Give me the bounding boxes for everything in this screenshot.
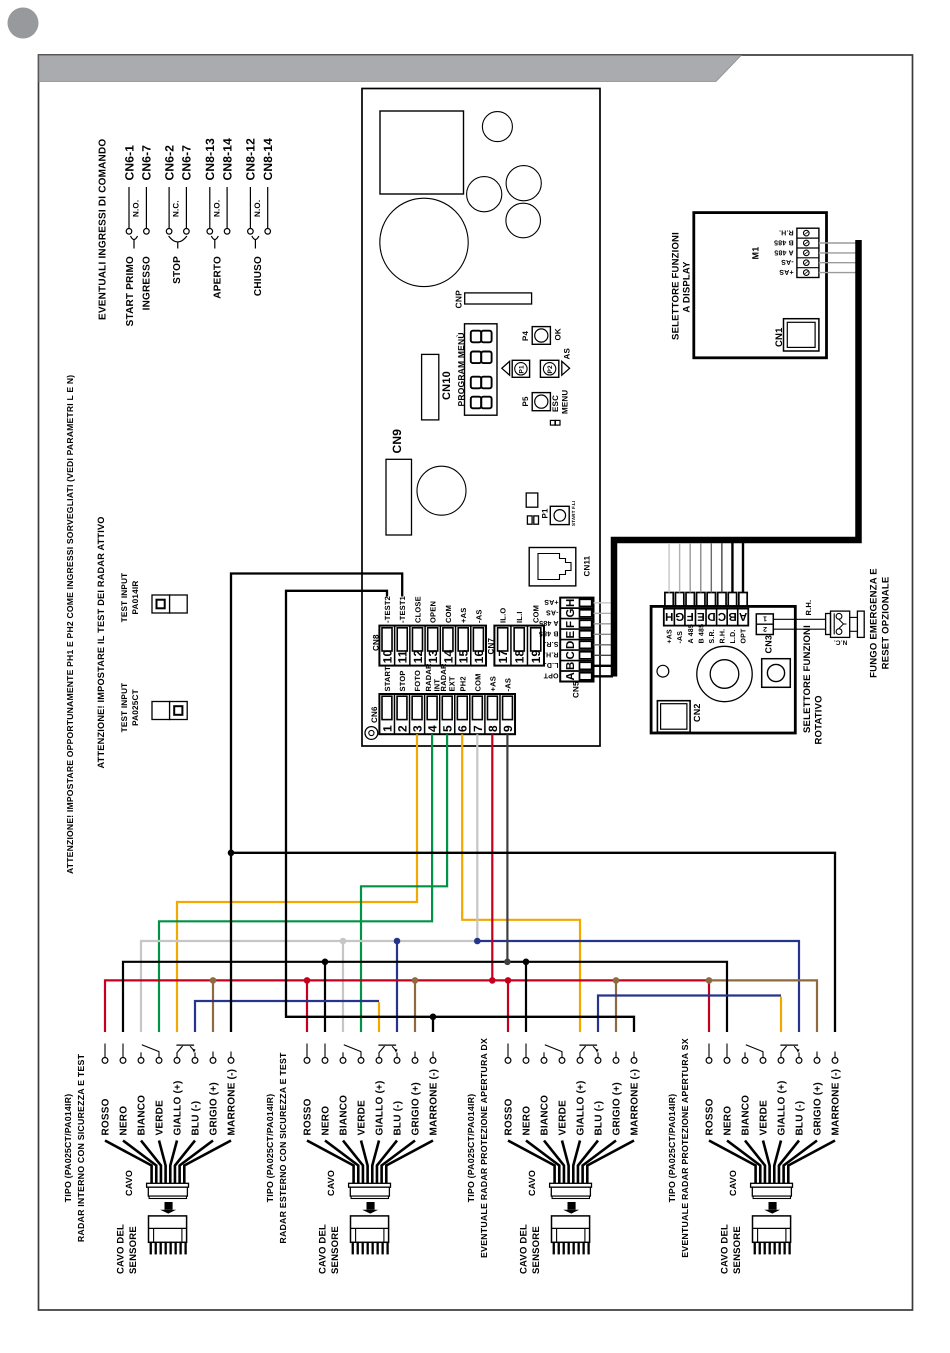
svg-text:P1: P1 bbox=[519, 365, 526, 374]
svg-text:CN8-13: CN8-13 bbox=[203, 138, 217, 181]
relay K2 bbox=[506, 203, 541, 238]
wire radar2 NERO drop bbox=[324, 962, 326, 1032]
wire radar3 ROSSO drop (red) bbox=[507, 980, 509, 1032]
radar group 2 mating arrow bbox=[362, 1202, 378, 1214]
terminal block M1 bbox=[751, 228, 819, 277]
control board outline bbox=[362, 89, 600, 747]
svg-text:E: E bbox=[565, 631, 577, 639]
label SELETTORE FUNZIONI ROTATIVO bbox=[802, 625, 824, 744]
svg-text:CN8-12: CN8-12 bbox=[244, 138, 258, 181]
svg-text:12: 12 bbox=[411, 650, 425, 664]
radar sensor group 2 contacts bbox=[304, 1044, 436, 1064]
svg-text:17: 17 bbox=[496, 650, 510, 664]
svg-text:SENSORE: SENSORE bbox=[128, 1226, 139, 1274]
svg-text:IL.O: IL.O bbox=[499, 608, 508, 623]
svg-text:R.H.: R.H. bbox=[804, 600, 813, 616]
svg-text:CAVO DEL: CAVO DEL bbox=[318, 1224, 329, 1274]
svg-text:ATTENZIONE! IMPOSTARE OPPORTUN: ATTENZIONE! IMPOSTARE OPPORTUNAMENTE PH1… bbox=[65, 375, 75, 874]
svg-text:SENSORE: SENSORE bbox=[531, 1226, 542, 1274]
svg-text:+AS: +AS bbox=[779, 268, 794, 275]
svg-text:CAVO: CAVO bbox=[527, 1170, 537, 1196]
svg-text:NERO: NERO bbox=[522, 1106, 533, 1136]
radar group 1 cable fan bbox=[105, 1141, 231, 1184]
warning note radar test bbox=[96, 516, 106, 768]
svg-text:CAVO: CAVO bbox=[124, 1170, 134, 1196]
wire radar1 BLU to radar2 GIALLO (blue segment) bbox=[195, 1001, 379, 1032]
svg-text:MARRONE (-): MARRONE (-) bbox=[630, 1069, 641, 1136]
svg-text:OPT: OPT bbox=[741, 628, 748, 644]
radar group 2 cable connector CAVO bbox=[326, 1170, 391, 1199]
svg-text:ATTENZIONE! IMPOSTARE IL TEST: ATTENZIONE! IMPOSTARE IL TEST DEI RADAR … bbox=[96, 516, 106, 768]
svg-text:ROSSO: ROSSO bbox=[303, 1098, 314, 1135]
test input selector PA025CT bbox=[152, 702, 187, 720]
button P4 OK bbox=[521, 327, 563, 345]
smd pair bbox=[527, 516, 538, 524]
svg-text:+AS: +AS bbox=[544, 598, 559, 605]
svg-text:TEST INPUT: TEST INPUT bbox=[120, 573, 129, 623]
header bar bbox=[39, 56, 741, 82]
svg-text:-AS: -AS bbox=[677, 631, 684, 644]
svg-text:MARRONE (-): MARRONE (-) bbox=[227, 1069, 238, 1136]
svg-text:+AS: +AS bbox=[667, 629, 674, 644]
svg-text:M1: M1 bbox=[751, 247, 761, 260]
wires R.H. to mushroom button bbox=[773, 600, 825, 630]
svg-text:STOP: STOP bbox=[398, 670, 407, 691]
svg-text:OK: OK bbox=[554, 328, 563, 340]
svg-text:R.H.: R.H. bbox=[779, 229, 794, 236]
svg-text:CAVO DEL: CAVO DEL bbox=[116, 1224, 127, 1274]
svg-text:RESET OPZIONALE: RESET OPZIONALE bbox=[880, 577, 891, 670]
wire RADAR EXT pin5 to radar2 VERDE (green) bbox=[361, 734, 447, 1032]
radar group 3 wire labels bbox=[504, 1069, 641, 1136]
page marker circle bbox=[8, 8, 39, 39]
box SELETTORE FUNZIONI ROTATIVO bbox=[651, 606, 795, 733]
svg-text:A 485: A 485 bbox=[774, 248, 793, 255]
svg-text:CN10: CN10 bbox=[441, 371, 453, 400]
warning note PH1/PH2 bbox=[65, 375, 75, 874]
svg-text:3: 3 bbox=[410, 725, 424, 732]
svg-text:SELETTORE FUNZIONI: SELETTORE FUNZIONI bbox=[802, 625, 813, 733]
svg-text:CN8-14: CN8-14 bbox=[261, 138, 275, 181]
mushroom emergency button N.C. bbox=[826, 611, 865, 645]
svg-text:EVENTUALE RADAR PROTEZIONE APE: EVENTUALE RADAR PROTEZIONE APERTURA SX bbox=[680, 1038, 690, 1258]
svg-text:CAVO: CAVO bbox=[326, 1170, 336, 1196]
radar group 4 sensor plug CAVO DEL SENSORE bbox=[720, 1216, 791, 1274]
svg-text:1: 1 bbox=[380, 725, 394, 732]
svg-text:ESC: ESC bbox=[551, 395, 560, 412]
wire radar1 GRIGIO drop (brown) bbox=[212, 980, 214, 1032]
radar group 3 description bbox=[466, 1038, 489, 1258]
wire radar3 NERO drop bbox=[525, 962, 527, 1032]
svg-text:L.D.: L.D. bbox=[544, 661, 558, 668]
svg-text:2: 2 bbox=[395, 725, 409, 732]
svg-text:CN6-1: CN6-1 bbox=[122, 145, 136, 181]
command input switch CHIUSO (CN8-12/CN8-14) bbox=[244, 138, 275, 296]
svg-text:-TEST1: -TEST1 bbox=[398, 596, 407, 623]
svg-text:GRIGIO (+): GRIGIO (+) bbox=[813, 1082, 824, 1135]
svg-text:EXT: EXT bbox=[447, 676, 456, 691]
connector CNP bbox=[454, 290, 532, 309]
arrow right AS bbox=[562, 348, 572, 376]
svg-text:-AS: -AS bbox=[781, 258, 794, 265]
svg-text:COM: COM bbox=[444, 605, 453, 623]
wire radar4 GIALLO drop (orange) bbox=[780, 997, 782, 1032]
svg-text:H: H bbox=[665, 610, 674, 622]
svg-text:A: A bbox=[739, 610, 748, 622]
test input PA025CT label bbox=[120, 683, 140, 733]
radar group 1 wire labels bbox=[101, 1069, 238, 1136]
wire COM bus blue segment to radar4 BLU bbox=[477, 941, 799, 1032]
button P5 ESC MENU bbox=[521, 390, 570, 414]
svg-text:BIANCO: BIANCO bbox=[540, 1095, 551, 1136]
svg-text:L.D.: L.D. bbox=[730, 629, 737, 643]
svg-text:BIANCO: BIANCO bbox=[741, 1095, 752, 1136]
CN7 pin labels bbox=[499, 605, 541, 623]
connector CN7 terminal block pins 17-19 bbox=[486, 626, 544, 666]
svg-text:11: 11 bbox=[396, 650, 410, 663]
svg-text:TIPO (PA025CT/PA014IR): TIPO (PA025CT/PA014IR) bbox=[265, 1094, 275, 1203]
svg-text:MENU: MENU bbox=[561, 390, 570, 414]
svg-text:2: 2 bbox=[763, 625, 767, 632]
svg-text:START: START bbox=[383, 666, 392, 692]
wire radar2 BIANCO drop (gray) bbox=[342, 941, 344, 1032]
svg-text:19: 19 bbox=[529, 650, 543, 664]
svg-text:N.O.: N.O. bbox=[253, 200, 262, 217]
svg-text:16: 16 bbox=[472, 650, 486, 664]
CN5 wires to cable bundle bbox=[594, 603, 614, 676]
relay K3 bbox=[417, 466, 466, 515]
svg-text:PA014IR: PA014IR bbox=[131, 580, 140, 614]
rotativo letter cells bbox=[664, 609, 748, 626]
svg-text:CN3: CN3 bbox=[764, 635, 774, 654]
wire radar3 BLU to radar4 GIALLO (blue segment) bbox=[598, 996, 781, 1033]
svg-text:BLU (-): BLU (-) bbox=[393, 1101, 404, 1136]
led hole bbox=[657, 665, 669, 677]
svg-text:CN9: CN9 bbox=[390, 429, 404, 454]
wire -TEST2 pin10 to radar2/radar3 MARRONE bbox=[286, 591, 634, 1032]
radar group 1 sensor plug CAVO DEL SENSORE bbox=[116, 1216, 187, 1274]
svg-text:CN6: CN6 bbox=[370, 706, 379, 723]
svg-text:G: G bbox=[565, 608, 577, 617]
svg-text:18: 18 bbox=[513, 650, 527, 664]
svg-text:CAVO DEL: CAVO DEL bbox=[519, 1224, 530, 1274]
svg-text:8: 8 bbox=[486, 725, 500, 732]
svg-text:IL.I: IL.I bbox=[515, 611, 524, 623]
svg-text:10: 10 bbox=[380, 650, 394, 664]
radar group 1 cable connector CAVO bbox=[124, 1170, 189, 1199]
rotativo terminal labels bbox=[667, 624, 748, 644]
svg-text:A DISPLAY: A DISPLAY bbox=[681, 261, 692, 313]
radar group 2 wire labels bbox=[303, 1069, 440, 1136]
svg-text:FUNGO EMERGENZA E: FUNGO EMERGENZA E bbox=[869, 568, 880, 678]
svg-text:B: B bbox=[728, 610, 737, 622]
svg-text:ROSSO: ROSSO bbox=[504, 1098, 515, 1135]
svg-text:-AS: -AS bbox=[503, 678, 512, 692]
svg-text:PH2: PH2 bbox=[458, 676, 467, 691]
svg-text:TEST INPUT: TEST INPUT bbox=[120, 683, 129, 733]
wire COM pin7 drop (gray) bbox=[476, 734, 478, 941]
radar group 4 mating arrow bbox=[764, 1202, 780, 1214]
svg-text:C: C bbox=[718, 610, 727, 622]
svg-text:GIALLO (+): GIALLO (+) bbox=[173, 1080, 184, 1135]
svg-text:AS: AS bbox=[563, 348, 572, 360]
svg-text:SELETTORE FUNZIONI: SELETTORE FUNZIONI bbox=[670, 232, 681, 340]
radar group 2 sensor plug CAVO DEL SENSORE bbox=[318, 1216, 389, 1274]
label FUNGO EMERGENZA E RESET OPZIONALE bbox=[869, 568, 892, 678]
svg-text:R.H.: R.H. bbox=[719, 629, 726, 644]
svg-text:CN2: CN2 bbox=[692, 703, 702, 722]
svg-text:OPEN: OPEN bbox=[429, 601, 438, 623]
label SELETTORE FUNZIONI A DISPLAY bbox=[670, 232, 692, 340]
svg-text:NERO: NERO bbox=[119, 1106, 130, 1136]
box SELETTORE FUNZIONI A DISPLAY bbox=[694, 213, 827, 358]
junction dots bbox=[210, 850, 713, 1021]
svg-text:INGRESSO: INGRESSO bbox=[142, 256, 153, 310]
wire -AS pin9 drop (dark gray) bbox=[506, 734, 508, 962]
wire -TEST1 pin11 to radar1 MARRONE and radar4 MARRONE bbox=[231, 574, 835, 1033]
radar group 4 description bbox=[667, 1038, 690, 1258]
svg-text:-AS: -AS bbox=[474, 609, 483, 623]
radar group 2 description bbox=[265, 1052, 288, 1244]
label PROGRAM MENU bbox=[456, 332, 466, 406]
connector CN2 bbox=[657, 701, 702, 733]
svg-text:VERDE: VERDE bbox=[155, 1100, 166, 1136]
svg-text:MARRONE (-): MARRONE (-) bbox=[831, 1069, 842, 1136]
radar sensor group 1 contacts bbox=[102, 1044, 234, 1064]
svg-text:EVENTUALI INGRESSI DI COMANDO: EVENTUALI INGRESSI DI COMANDO bbox=[98, 139, 109, 320]
radar group 2 cable fan bbox=[307, 1141, 433, 1184]
radar group 3 cable connector CAVO bbox=[527, 1170, 592, 1199]
test input PA014IR label bbox=[120, 573, 140, 623]
svg-text:ROSSO: ROSSO bbox=[101, 1098, 112, 1135]
svg-text:NERO: NERO bbox=[723, 1106, 734, 1136]
svg-text:TIPO (PA025CT/PA014IR): TIPO (PA025CT/PA014IR) bbox=[63, 1094, 73, 1203]
svg-text:BLU (-): BLU (-) bbox=[594, 1101, 605, 1136]
radar group 4 cable fan bbox=[709, 1141, 835, 1184]
svg-text:15: 15 bbox=[457, 650, 471, 664]
svg-text:CN6-7: CN6-7 bbox=[140, 145, 154, 181]
capacitor C2 bbox=[467, 177, 502, 212]
svg-text:VERDE: VERDE bbox=[558, 1100, 569, 1136]
wire FOTO pin3 to radar1 GIALLO (orange) bbox=[177, 734, 417, 1032]
command input switch START PRIMO (CN6-1/CN6-7) bbox=[122, 145, 153, 327]
svg-text:E: E bbox=[697, 610, 705, 622]
svg-text:TIPO (PA025CT/PA014IR): TIPO (PA025CT/PA014IR) bbox=[466, 1094, 476, 1203]
svg-text:N.O.: N.O. bbox=[132, 200, 141, 217]
svg-text:14: 14 bbox=[441, 650, 455, 664]
connector CN1 bbox=[774, 319, 819, 351]
connector CN9 bbox=[386, 429, 412, 535]
wire radar4 ROSSO drop (red) bbox=[708, 980, 710, 1032]
svg-text:F: F bbox=[687, 610, 694, 622]
svg-text:GRIGIO (+): GRIGIO (+) bbox=[612, 1082, 623, 1135]
svg-text:NERO: NERO bbox=[321, 1106, 332, 1136]
button P2 bbox=[540, 360, 558, 377]
svg-text:SENSORE: SENSORE bbox=[330, 1226, 341, 1274]
radar group 4 wire labels bbox=[705, 1069, 842, 1136]
svg-text:S.R.: S.R. bbox=[544, 640, 558, 647]
svg-text:CN11: CN11 bbox=[583, 555, 592, 576]
arrow left bbox=[502, 361, 510, 375]
radar group 3 sensor plug CAVO DEL SENSORE bbox=[519, 1216, 590, 1274]
wire red bus bbox=[105, 980, 709, 1032]
svg-text:6: 6 bbox=[456, 725, 470, 732]
svg-text:R.H.: R.H. bbox=[544, 651, 559, 658]
svg-text:PA025CT: PA025CT bbox=[131, 689, 140, 726]
svg-text:CLOSE: CLOSE bbox=[413, 596, 422, 623]
svg-text:STOP: STOP bbox=[172, 256, 183, 284]
svg-text:TIPO (PA025CT/PA014IR): TIPO (PA025CT/PA014IR) bbox=[667, 1094, 677, 1203]
svg-text:FOTO: FOTO bbox=[413, 670, 422, 692]
rotativo terminal strip bbox=[665, 593, 747, 606]
svg-text:H: H bbox=[565, 599, 577, 608]
svg-text:D: D bbox=[565, 640, 577, 649]
svg-text:N.C.: N.C. bbox=[834, 639, 848, 646]
svg-text:+AS: +AS bbox=[488, 676, 497, 691]
connector CN3 socket bbox=[762, 659, 791, 688]
radar sensor group 4 contacts bbox=[706, 1044, 838, 1064]
svg-text:4: 4 bbox=[426, 725, 440, 732]
svg-text:P1: P1 bbox=[541, 508, 550, 519]
relay K1 bbox=[506, 166, 541, 201]
wire radar2 ROSSO drop (red) bbox=[306, 980, 308, 1032]
capacitor C1 bbox=[482, 112, 512, 142]
svg-text:RADAR INTERNO CON SICUREZZA E: RADAR INTERNO CON SICUREZZA E TEST bbox=[76, 1053, 86, 1242]
connector CN3 terminals 1-2 bbox=[756, 614, 773, 654]
CN6 label and mounting screw bbox=[365, 706, 379, 739]
svg-text:7: 7 bbox=[471, 725, 485, 732]
svg-text:N.O.: N.O. bbox=[212, 200, 221, 217]
command input switch APERTO (CN8-13/CN8-14) bbox=[203, 138, 234, 299]
svg-text:CN7: CN7 bbox=[486, 638, 495, 655]
wire RADAR INT pin4 to radar1 VERDE (green) bbox=[159, 734, 432, 1032]
svg-text:B 485: B 485 bbox=[774, 238, 794, 245]
svg-text:ROTATIVO: ROTATIVO bbox=[813, 695, 824, 744]
wire PH2 pin6 to radar3 GIALLO (orange) bbox=[462, 734, 580, 1032]
svg-text:S.R.: S.R. bbox=[709, 629, 716, 643]
svg-text:P5: P5 bbox=[521, 396, 530, 407]
svg-text:CHIUSO: CHIUSO bbox=[253, 256, 264, 296]
svg-text:GIALLO (+): GIALLO (+) bbox=[777, 1080, 788, 1135]
svg-text:ROSSO: ROSSO bbox=[705, 1098, 716, 1135]
svg-text:-TEST2: -TEST2 bbox=[383, 596, 392, 623]
wire COM bus gray segment bbox=[141, 941, 477, 1032]
svg-text:CN5: CN5 bbox=[572, 681, 581, 698]
svg-text:P4: P4 bbox=[521, 330, 530, 341]
svg-text:CN1: CN1 bbox=[774, 327, 785, 347]
transformer block bbox=[380, 111, 464, 194]
wire radar3 GRIGIO drop (brown) bbox=[615, 980, 617, 1032]
radar group 1 mating arrow bbox=[160, 1202, 176, 1214]
component near P1 bbox=[526, 493, 538, 507]
toroid transformer bbox=[380, 198, 468, 286]
svg-text:C: C bbox=[565, 651, 577, 660]
command input switch STOP (CN6-2/CN6-7) bbox=[162, 145, 193, 284]
svg-text:BIANCO: BIANCO bbox=[137, 1095, 148, 1136]
svg-text:SENSORE: SENSORE bbox=[732, 1226, 743, 1274]
svg-text:GRIGIO (+): GRIGIO (+) bbox=[411, 1082, 422, 1135]
M1 wires to bundle bbox=[819, 243, 856, 273]
radar sensor group 3 contacts bbox=[505, 1044, 637, 1064]
connector CN5 block rows A-H bbox=[560, 598, 593, 698]
cable bundle (thick) bbox=[614, 240, 859, 677]
svg-text:CNP: CNP bbox=[454, 290, 464, 309]
CN5 row labels (rotated) bbox=[539, 598, 559, 678]
wire radar2 BLU drop (blue) bbox=[396, 941, 398, 1032]
M1 terminal labels (rotated 180) bbox=[774, 229, 794, 276]
wire +AS pin8 drop (red) bbox=[491, 734, 493, 980]
svg-text:VERDE: VERDE bbox=[357, 1100, 368, 1136]
connector CN6 terminal block pins 1-9 bbox=[379, 694, 515, 734]
svg-text:APERTO: APERTO bbox=[212, 256, 223, 299]
svg-text:COM: COM bbox=[473, 673, 482, 691]
wire brown bus segment to radar4 GRIGIO bbox=[709, 980, 817, 1032]
svg-text:A 485: A 485 bbox=[539, 619, 558, 626]
rotary selector knob bbox=[697, 646, 752, 701]
svg-text:GIALLO (+): GIALLO (+) bbox=[576, 1080, 587, 1135]
svg-text:9: 9 bbox=[501, 725, 515, 732]
display CN10 connector bbox=[422, 354, 453, 420]
svg-text:CN8: CN8 bbox=[371, 634, 380, 651]
test input selector PA014IR bbox=[152, 595, 187, 613]
svg-text:CN8-14: CN8-14 bbox=[220, 138, 234, 181]
svg-text:OPT: OPT bbox=[543, 672, 559, 679]
svg-text:13: 13 bbox=[426, 650, 440, 664]
wire radar2 GIALLO drop (orange) bbox=[378, 1002, 380, 1032]
svg-text:MARRONE (-): MARRONE (-) bbox=[429, 1069, 440, 1136]
connector CN11 (RJ jack) bbox=[529, 548, 591, 586]
svg-text:A: A bbox=[565, 672, 577, 681]
svg-text:RADAR ESTERNO CON SICUREZZA E: RADAR ESTERNO CON SICUREZZA E TEST bbox=[278, 1052, 288, 1244]
CN6 pin labels bbox=[383, 663, 513, 691]
svg-text:BLU (-): BLU (-) bbox=[191, 1101, 202, 1136]
svg-text:B 485: B 485 bbox=[539, 630, 559, 637]
wire black NERO bus bbox=[123, 962, 727, 1032]
svg-text:G: G bbox=[675, 610, 684, 622]
svg-text:D: D bbox=[707, 610, 716, 622]
svg-text:CN6-2: CN6-2 bbox=[162, 145, 176, 181]
wires bundle to rotativo bbox=[669, 543, 743, 593]
jumper J1 bbox=[550, 420, 560, 425]
display digits 8888 bbox=[465, 324, 498, 415]
radar group 1 description bbox=[63, 1053, 86, 1242]
svg-text:N.C.: N.C. bbox=[172, 200, 181, 217]
svg-text:-AS: -AS bbox=[546, 609, 559, 616]
svg-text:GIALLO (+): GIALLO (+) bbox=[375, 1080, 386, 1135]
svg-text:B: B bbox=[565, 661, 577, 670]
svg-text:1: 1 bbox=[763, 615, 767, 622]
button P1 bbox=[512, 360, 529, 377]
svg-text:B 485: B 485 bbox=[698, 624, 705, 644]
svg-text:5: 5 bbox=[441, 725, 455, 732]
wire radar2 GRIGIO drop (brown) bbox=[414, 980, 416, 1032]
svg-text:CAVO DEL: CAVO DEL bbox=[720, 1224, 731, 1274]
radar group 4 cable connector CAVO bbox=[728, 1170, 793, 1199]
svg-text:EVENTUALE RADAR PROTEZIONE APE: EVENTUALE RADAR PROTEZIONE APERTURA DX bbox=[479, 1038, 489, 1258]
radar group 3 cable fan bbox=[508, 1141, 634, 1184]
CN8 pin labels bbox=[383, 596, 483, 623]
svg-text:A 485: A 485 bbox=[688, 624, 695, 643]
svg-text:CN6-7: CN6-7 bbox=[180, 145, 194, 181]
svg-text:VERDE: VERDE bbox=[759, 1100, 770, 1136]
connector CN8 terminal block pins 10-16 bbox=[371, 626, 486, 666]
svg-text:F: F bbox=[565, 621, 577, 628]
svg-text:START F.LI: START F.LI bbox=[571, 501, 576, 526]
svg-text:BIANCO: BIANCO bbox=[339, 1095, 350, 1136]
button P1 START F.LI bbox=[541, 501, 577, 526]
svg-text:GRIGIO (+): GRIGIO (+) bbox=[209, 1082, 220, 1135]
svg-text:START PRIMO: START PRIMO bbox=[125, 256, 136, 326]
